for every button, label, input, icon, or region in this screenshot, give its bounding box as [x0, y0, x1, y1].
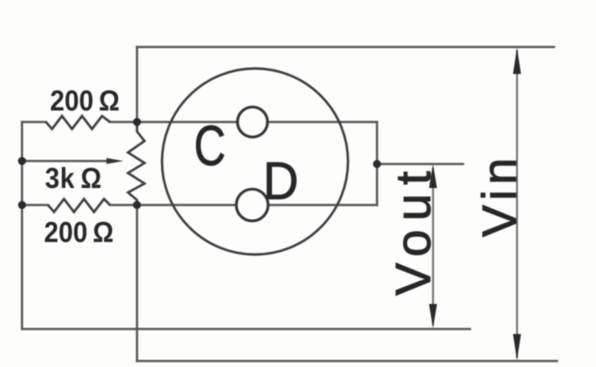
resistor R2 200ohm bottom zigzag	[48, 199, 110, 212]
pin C small circle	[238, 107, 268, 137]
node dot bottom left	[18, 201, 26, 209]
svg-text:200 Ω: 200 Ω	[50, 84, 120, 117]
arrowhead Vin up	[513, 48, 521, 75]
pin D small circle	[236, 189, 268, 221]
node dot bottom of potentiometer	[133, 201, 141, 209]
svg-text:200 Ω: 200 Ω	[44, 216, 114, 249]
node dot wiper on left wire	[18, 157, 26, 165]
wire Vout tick	[377, 163, 463, 165]
arrowhead Vout up	[429, 164, 437, 188]
arrowhead Vin down	[513, 334, 521, 361]
dimension line Vin	[516, 50, 518, 358]
svg-text:D: D	[263, 151, 299, 210]
svg-text:Vin: Vin	[474, 153, 527, 237]
wire left outer vertical lower	[136, 205, 138, 361]
svg-text:Vout: Vout	[387, 163, 441, 296]
wire left branch vertical	[21, 122, 23, 329]
wire top node segment left	[22, 121, 46, 123]
svg-text:C: C	[194, 113, 226, 177]
wire wiper lead	[22, 160, 110, 162]
node dot output	[373, 160, 381, 168]
resistor R1 200ohm top zigzag	[46, 116, 110, 129]
wire lower output return	[22, 328, 470, 330]
wire bottom node segment left	[22, 204, 48, 206]
wire bottom node segment right	[110, 204, 377, 206]
svg-text:3k Ω: 3k Ω	[45, 162, 102, 195]
potentiometer wiper arrowhead	[107, 158, 124, 164]
wire top node segment right	[110, 121, 377, 123]
resistor R3 3k potentiometer zigzag	[128, 122, 145, 205]
node dot top of potentiometer	[133, 118, 141, 126]
wire right vertical between plates	[376, 122, 378, 205]
dimension line Vout	[432, 168, 434, 325]
wire left outer vertical upper	[136, 47, 138, 122]
wire top rail	[137, 46, 554, 48]
tube envelope big circle V1	[162, 69, 348, 255]
wire bottom rail	[137, 360, 557, 362]
arrowhead Vout down	[429, 304, 437, 329]
